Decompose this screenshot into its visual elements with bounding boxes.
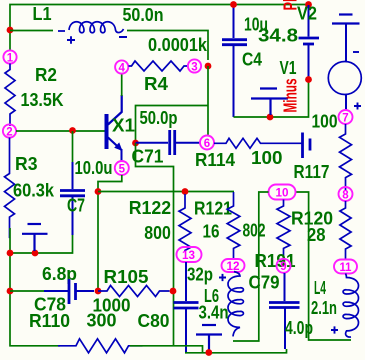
svg-text:2.1n: 2.1n xyxy=(311,297,337,318)
svg-text:800: 800 xyxy=(144,222,171,243)
node 10 xyxy=(269,185,296,200)
node 6 xyxy=(200,136,214,150)
svg-text:L1: L1 xyxy=(33,3,52,24)
source bottom lead xyxy=(345,95,347,111)
svg-text:9: 9 xyxy=(280,261,286,273)
inductor L4 xyxy=(343,274,358,338)
capacitor C80 xyxy=(174,262,199,353)
svg-text:4.0p: 4.0p xyxy=(285,317,313,338)
wire 50.0p box top xyxy=(136,106,209,144)
svg-text:7: 7 xyxy=(342,112,348,124)
wire C71 corner down to R105 dot xyxy=(136,143,174,346)
wire node2 to transistor base xyxy=(16,130,105,132)
node 4 xyxy=(115,60,128,74)
transistor X1 xyxy=(105,95,123,162)
svg-text:3.4n: 3.4n xyxy=(199,302,229,323)
inductor L6 xyxy=(228,272,243,337)
svg-text:V1: V1 xyxy=(280,57,297,78)
node 8 xyxy=(339,187,353,201)
ground G2 flipped xyxy=(251,89,288,116)
svg-text:R4: R4 xyxy=(144,73,169,94)
svg-text:802: 802 xyxy=(243,220,266,241)
plus mark source xyxy=(354,103,361,110)
wire 98,191 to 802 resistor xyxy=(98,191,234,193)
junction dot node3 right xyxy=(205,63,212,70)
resistor R120 xyxy=(340,201,351,260)
ground G4 top right xyxy=(332,15,360,62)
resistor R110 xyxy=(58,339,143,353)
svg-text:300: 300 xyxy=(87,310,117,331)
plus mark L4 xyxy=(331,326,338,333)
node 3 xyxy=(188,59,201,73)
wire node4 down to collector xyxy=(121,74,123,97)
node 2 xyxy=(3,124,16,138)
junction dot ground top-mid xyxy=(267,114,274,121)
junction dot left 291 xyxy=(7,288,14,295)
wire L4 bottom to box xyxy=(296,192,351,340)
junction dot R105 right xyxy=(170,288,177,295)
minus mark source xyxy=(353,51,359,53)
junction dot top-left xyxy=(7,27,14,34)
svg-text:16: 16 xyxy=(203,221,220,242)
node 1 xyxy=(3,50,16,64)
resistor R4 xyxy=(129,61,189,71)
capacitor C71 xyxy=(136,130,201,155)
junction dot left 253 xyxy=(7,250,14,257)
capacitor C78 xyxy=(44,279,94,304)
junction dot base wire xyxy=(69,127,76,134)
battery right of R114 xyxy=(303,133,311,159)
svg-text:50.0p: 50.0p xyxy=(140,107,178,128)
svg-text:11: 11 xyxy=(340,262,353,274)
capacitor C4 xyxy=(222,5,247,117)
svg-text:R105: R105 xyxy=(104,266,149,287)
wire R3 bottom to bottom-left rail xyxy=(10,228,60,346)
battery V2 xyxy=(299,5,320,79)
wire top rail xyxy=(10,5,309,52)
svg-text:1: 1 xyxy=(7,52,14,64)
node 7 xyxy=(339,110,353,124)
svg-text:13.5K: 13.5K xyxy=(21,89,65,110)
svg-text:6: 6 xyxy=(204,138,210,150)
source V1 circle xyxy=(328,62,361,95)
wire bottom rail xyxy=(185,349,287,353)
svg-text:R122: R122 xyxy=(129,197,172,218)
svg-text:Minus: Minus xyxy=(280,79,301,113)
junction dot R121 top xyxy=(182,188,189,195)
junction dot ground 253 xyxy=(32,250,39,257)
svg-text:X1: X1 xyxy=(112,115,135,136)
wire node3 dot down xyxy=(207,66,209,136)
svg-text:60.3k: 60.3k xyxy=(13,180,55,201)
svg-text:C7: C7 xyxy=(67,195,85,216)
wire R110 right to bottom rail xyxy=(130,346,203,353)
wire node5 to x98 line down xyxy=(98,175,122,291)
capacitor C79 xyxy=(269,273,300,349)
svg-text:2: 2 xyxy=(6,126,12,138)
node 12 xyxy=(222,259,245,273)
svg-text:8: 8 xyxy=(342,189,349,201)
wire dot down to C7 xyxy=(72,131,74,162)
svg-text:12: 12 xyxy=(227,261,240,273)
svg-text:6.8p: 6.8p xyxy=(42,263,77,284)
junction dot ground bottom xyxy=(205,349,212,356)
wire to C78 xyxy=(10,290,46,292)
ground G3 flipped xyxy=(196,325,222,351)
plus mark L6 xyxy=(219,274,226,281)
svg-text:C79: C79 xyxy=(249,272,280,293)
svg-text:32p: 32p xyxy=(187,264,213,285)
svg-text:100: 100 xyxy=(251,147,283,168)
svg-text:C4: C4 xyxy=(242,49,263,70)
svg-text:34.8: 34.8 xyxy=(258,25,298,46)
junction dot C71 left xyxy=(132,140,139,147)
svg-text:13: 13 xyxy=(182,250,195,262)
wire bottom of C4 block xyxy=(234,80,309,117)
resistor R117 xyxy=(340,124,352,191)
resistor R191 xyxy=(277,200,290,259)
junction dot C4 top xyxy=(230,1,237,8)
svg-text:L4: L4 xyxy=(314,277,326,298)
svg-text:R2: R2 xyxy=(35,64,57,85)
wire L1 to corner and down to node3 dot xyxy=(127,31,208,61)
svg-text:50.0n: 50.0n xyxy=(123,4,164,25)
svg-text:3: 3 xyxy=(191,61,197,73)
svg-text:C80: C80 xyxy=(138,310,170,331)
node 9 xyxy=(277,259,291,273)
junction dot R105 left xyxy=(95,288,102,295)
resistor R2 xyxy=(5,64,15,127)
resistor R3 xyxy=(5,138,15,239)
svg-text:0.0001k: 0.0001k xyxy=(148,34,208,55)
node 5 xyxy=(115,161,129,175)
inductor L1 coil xyxy=(58,22,127,44)
svg-text:V2: V2 xyxy=(297,3,317,24)
wire stub from dot to L1 xyxy=(10,30,53,32)
svg-text:4: 4 xyxy=(118,62,125,74)
resistor R114 xyxy=(214,138,304,148)
svg-text:10.0u: 10.0u xyxy=(75,157,113,178)
svg-text:R114: R114 xyxy=(195,149,236,170)
resistor R121 xyxy=(179,194,191,251)
svg-text:R3: R3 xyxy=(15,153,38,174)
junction dot V2 bottom xyxy=(305,76,312,83)
wire node10 left corner down xyxy=(233,192,269,341)
resistor R105 xyxy=(98,286,170,297)
resistor 802 xyxy=(227,192,240,258)
svg-text:R110: R110 xyxy=(29,310,70,331)
junction dot V2 top xyxy=(305,1,312,8)
node 11 xyxy=(334,260,357,274)
svg-text:R121: R121 xyxy=(194,198,232,219)
node 13 xyxy=(177,247,202,262)
svg-text:10: 10 xyxy=(276,187,289,199)
wire C7 bottom to left xyxy=(10,235,73,253)
svg-text:5: 5 xyxy=(119,163,126,175)
svg-text:R117: R117 xyxy=(294,161,330,182)
ground G1 flipped xyxy=(22,224,48,251)
svg-text:28: 28 xyxy=(307,224,326,245)
svg-text:100: 100 xyxy=(312,111,338,132)
junction dot 98 191 xyxy=(95,188,102,195)
capacitor C7 xyxy=(60,162,85,235)
